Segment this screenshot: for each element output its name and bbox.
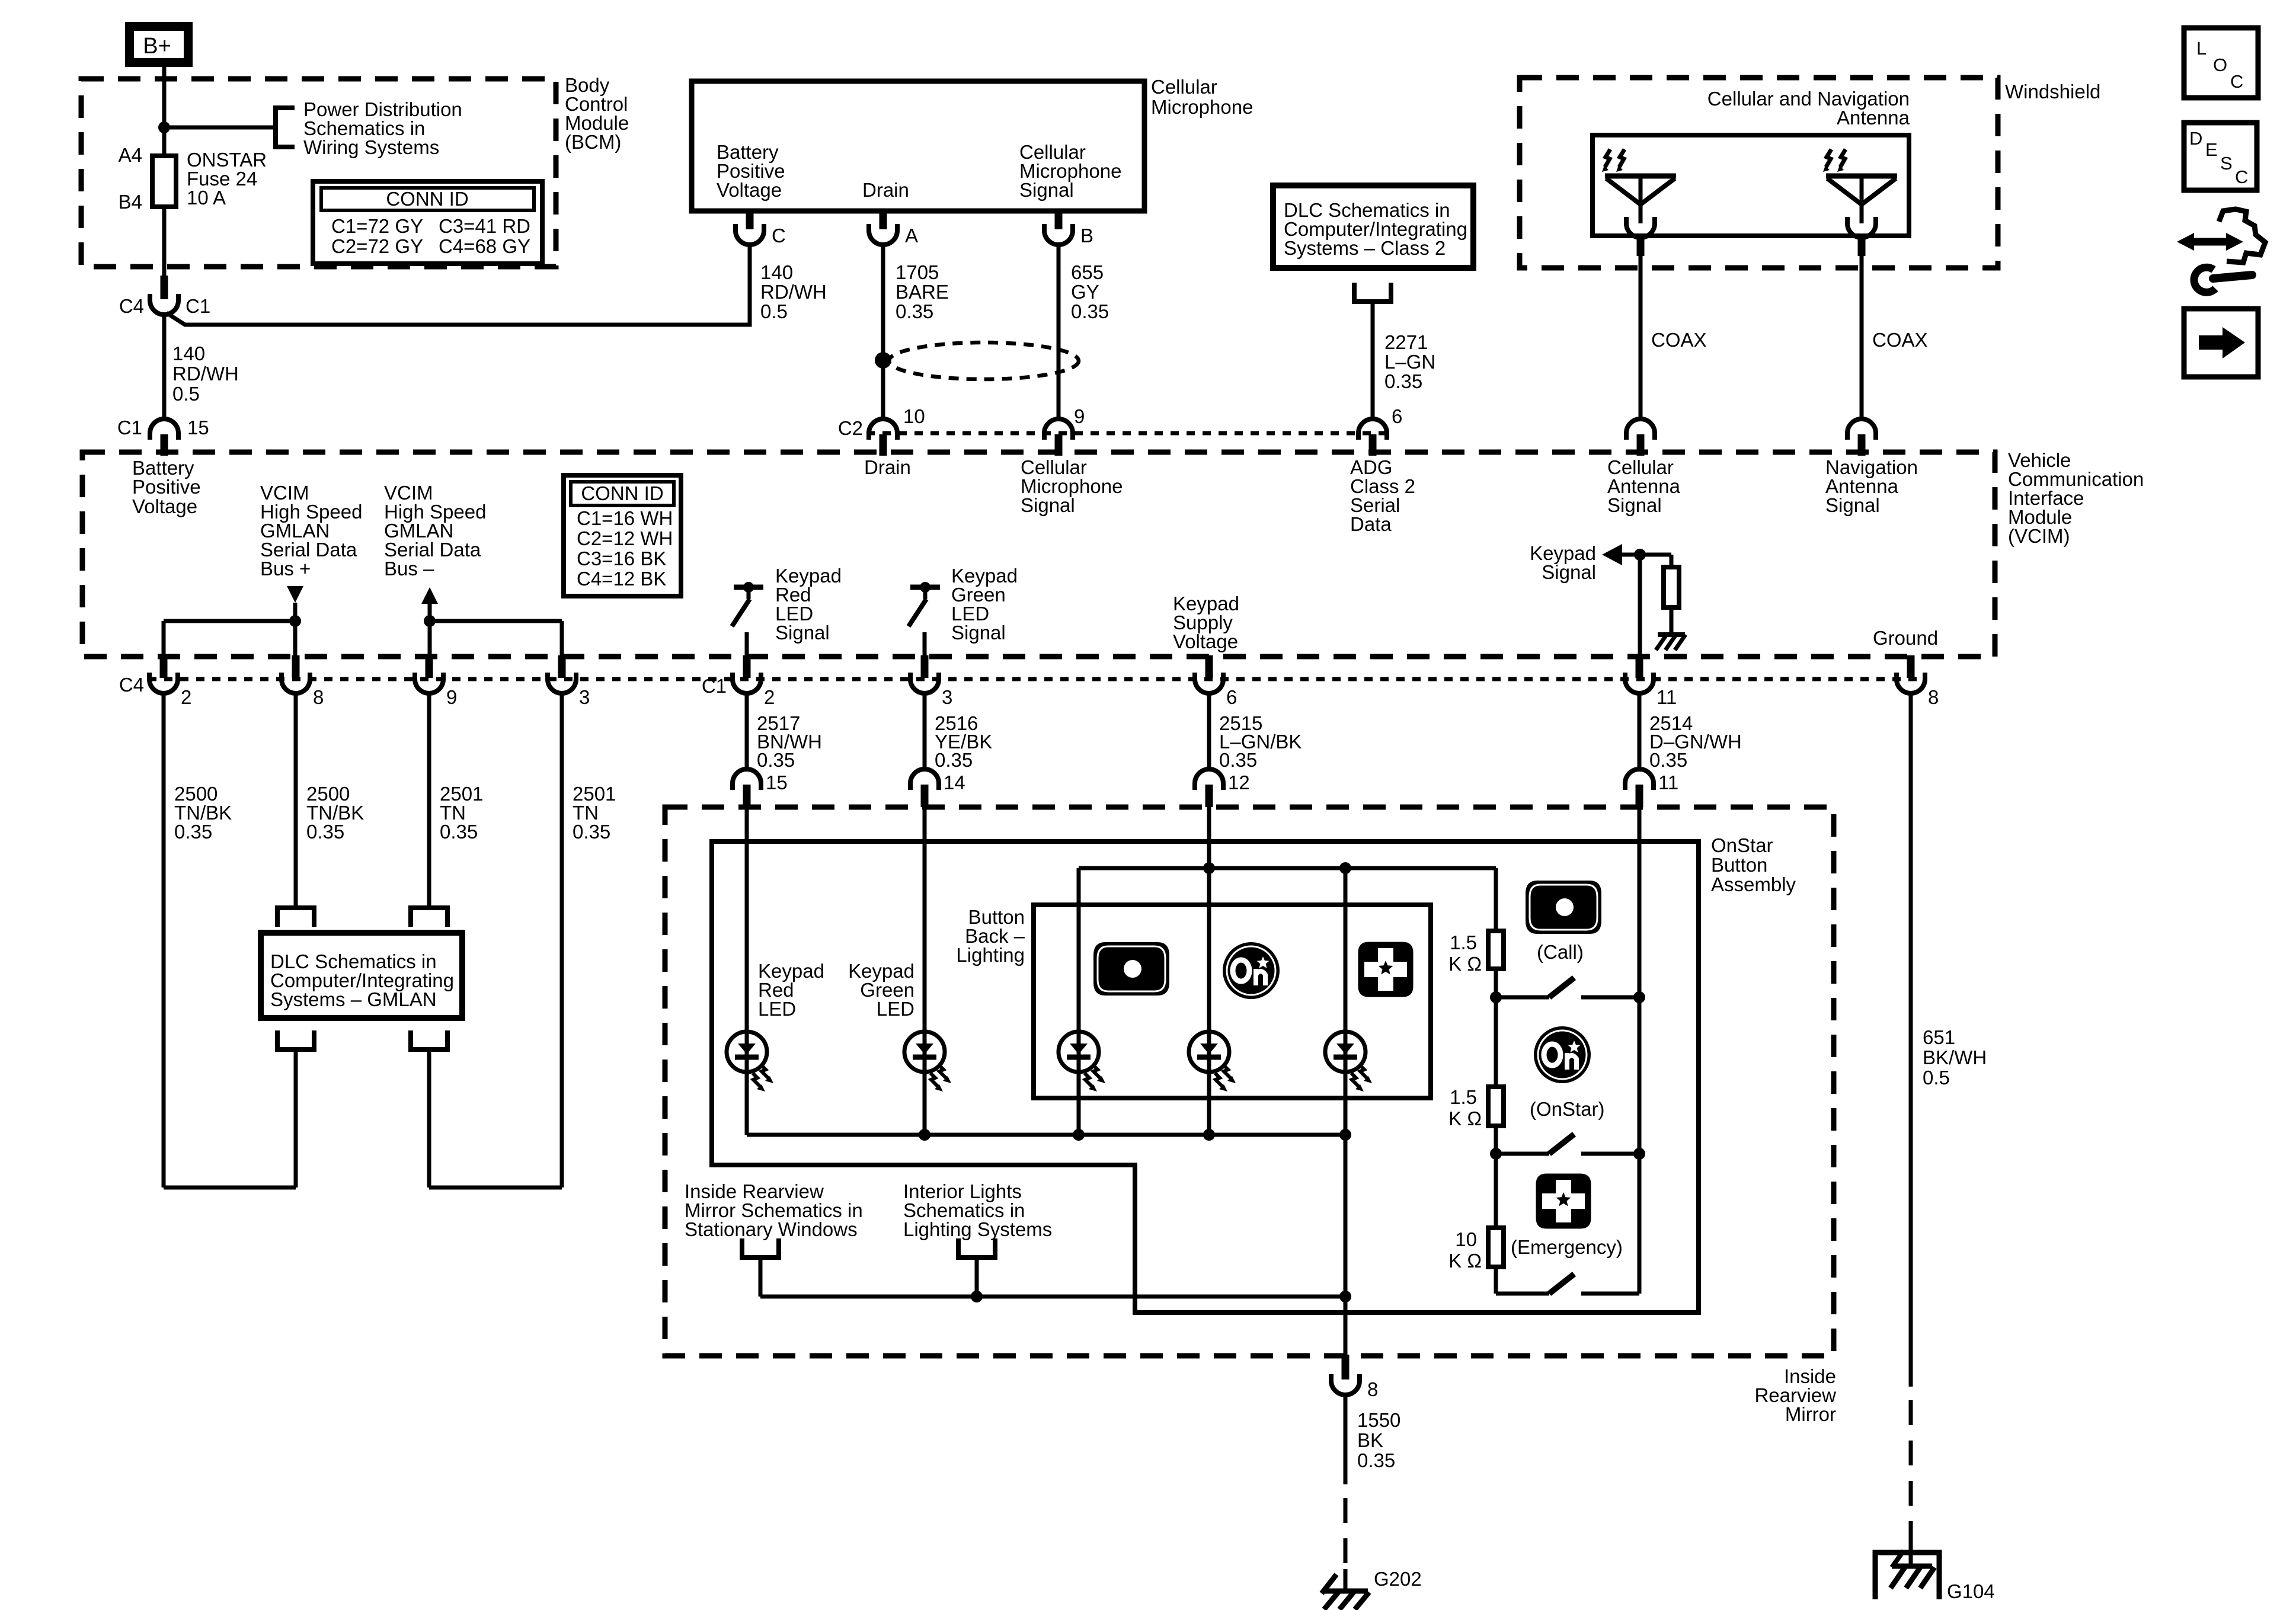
ground G104 [1891,1551,1934,1588]
svg-text:3: 3 [942,686,952,708]
label wire 1550 BK 0.35 [1357,1409,1400,1471]
wire keypad green LED signal to pin 3 [923,632,927,657]
label Drain (microphone) [862,179,909,201]
svg-text:Signal: Signal [1542,561,1596,583]
svg-text:9: 9 [1074,405,1085,427]
connector OnStar button assembly pin 12 [1195,769,1223,807]
connector pin B [1044,209,1073,245]
node switch1 left [1490,991,1502,1003]
label wire 1705 BARE 0.35 [896,261,949,322]
svg-text:RD/WH: RD/WH [760,281,827,303]
svg-text:COAX: COAX [1651,329,1707,351]
wire keypad signal horizontal [1621,553,1671,557]
svg-text:C1=16 WH: C1=16 WH [577,507,673,529]
node shield drain junction [875,352,891,369]
box OnStar Button Assembly (L-shaped) [712,841,1699,1313]
wire back-lighting feed [1079,866,1496,870]
svg-text:C4: C4 [119,674,144,696]
label pin 12 (assembly) [1228,772,1250,793]
label G202 [1374,1568,1422,1590]
svg-text:2: 2 [764,686,775,708]
svg-text:3: 3 [579,686,590,708]
svg-text:Stationary Windows: Stationary Windows [685,1218,858,1240]
power symbol B+ (battery positive) [130,27,188,63]
node bus bl2 [1203,1129,1215,1141]
connector OnStar button assembly pin 14 [910,769,939,807]
wire pin 3 drop inside VCIM [560,621,564,657]
label wire 2516 YE/BK 0.35 [935,712,992,771]
resistor keypad signal pull-down [1664,567,1679,607]
LED keypad red [727,1032,773,1092]
label wire 2271 L-GN 0.35 [1384,331,1435,392]
svg-text:(VCIM): (VCIM) [2008,525,2070,547]
svg-text:1.5: 1.5 [1450,932,1477,953]
svg-text:B: B [1080,225,1093,247]
connector navigation antenna input [1847,419,1876,456]
connector C4 pin 8 [282,655,310,693]
label pin 11 (assembly) [1658,772,1678,793]
label Cellular Antenna Signal [1607,456,1681,516]
box Button Back - Lighting [1034,905,1431,1098]
shield ellipse (dashed) [889,343,1079,379]
wire mirror schematics [759,1257,763,1297]
label wire 2501 TN 0.35 (pin 3) [573,783,616,843]
svg-text:Bus +: Bus + [260,558,311,580]
wire 1550 BK dashed segment [1344,1498,1348,1566]
wire 651 BK/WH [1909,693,1913,1387]
wire 2514 D–GN/WH [1638,693,1642,769]
label Keypad Red LED [758,960,824,1020]
label Ground (VCIM) [1873,627,1938,649]
svg-text:A: A [905,225,918,247]
pin stub below antenna box (navigation) [1858,236,1866,256]
connector assembly pin 8 [1331,1355,1360,1395]
wire bus + horizontal to pin 2 [164,619,295,623]
label wire 2501 TN 0.35 (pin 9) [440,783,483,843]
svg-text:Lighting: Lighting [956,944,1025,966]
svg-text:0.35: 0.35 [757,749,795,771]
svg-text:10: 10 [1455,1228,1477,1250]
svg-text:BK/WH: BK/WH [1923,1046,1987,1068]
label Power Distribution Schematics in Wiring Systems [303,98,462,158]
svg-text:BARE: BARE [896,281,949,303]
node junction on B+ feed [158,121,170,133]
wire fuse to connector C4 [162,207,167,277]
svg-text:2271: 2271 [1384,331,1428,353]
label pin 3 (C1 pin 3) [942,686,952,708]
svg-text:B4: B4 [119,191,142,213]
node bus + junction [289,615,301,627]
svg-text:Signal: Signal [775,622,830,644]
label C4 [119,295,144,317]
svg-text:C1: C1 [702,675,727,697]
wire back-light LED 3 / ground drop [1344,868,1348,1356]
label Windshield [2005,81,2100,103]
label pin 9 [1074,405,1085,427]
node interior lights junction [971,1291,983,1302]
svg-text:Systems – Class 2: Systems – Class 2 [1284,237,1446,259]
label pin 14 (assembly) [944,772,965,793]
wire 2517 BN/WH [745,693,749,769]
label pin 6 (C1 pin 6) [1226,686,1237,708]
svg-text:15: 15 [766,772,788,793]
wire chain R1-R2 [1494,997,1498,1087]
svg-text:651: 651 [1923,1026,1955,1048]
svg-text:G202: G202 [1374,1568,1422,1590]
label wire 651 BK/WH 0.5 [1923,1026,1987,1089]
dashed box Vehicle Communication Interface Module (VCIM) [82,452,1995,657]
svg-text:140: 140 [760,261,793,283]
wire pin 2 drop inside VCIM [162,621,166,657]
svg-text:(Call): (Call) [1537,941,1584,963]
svg-text:10: 10 [903,405,925,427]
svg-text:LED: LED [758,998,796,1020]
svg-text:Mirror: Mirror [1785,1403,1836,1425]
label pin C [772,225,786,247]
wire 2500 TN/BK pin 8 [294,693,298,908]
svg-text:B+: B+ [143,34,171,59]
node feed junction supply [1203,862,1215,874]
svg-text:(Emergency): (Emergency) [1511,1236,1623,1258]
wire drain 1705 BARE [881,244,885,419]
svg-text:Signal: Signal [1019,179,1074,201]
label wire 655 GY 0.35 [1071,261,1109,322]
svg-text:Drain: Drain [862,179,909,201]
svg-text:11: 11 [1658,772,1678,793]
svg-text:L–GN: L–GN [1384,351,1435,373]
label Navigation Antenna Signal [1825,456,1918,516]
label Keypad Signal [1530,542,1596,583]
svg-text:0.35: 0.35 [935,749,973,771]
dashed box Windshield [1520,78,1998,268]
connector C1 pin 6 [1195,655,1223,693]
wire 2516 YE/BK [923,693,927,769]
label pin A [905,225,918,247]
label C2 [838,417,863,439]
legend box LOC [2184,28,2258,98]
svg-text:0.5: 0.5 [760,300,788,322]
svg-text:O: O [2213,55,2227,75]
svg-text:14: 14 [944,772,965,793]
svg-text:0.35: 0.35 [1649,749,1687,771]
GMLAN bus - arrow (up) [421,587,438,604]
svg-text:C2=72 GY: C2=72 GY [331,235,423,257]
connector C1 pin 15 (VCIM battery feed) [150,419,178,456]
label Cellular Microphone [1151,76,1253,118]
svg-text:COAX: COAX [1872,329,1928,351]
svg-text:140: 140 [172,343,205,364]
svg-text:0.35: 0.35 [1071,300,1109,322]
wire COAX navigation [1860,256,1864,419]
svg-text:G104: G104 [1947,1580,1995,1602]
wire resistor to ground [1670,607,1674,635]
ground (VCIM internal) [1656,635,1686,650]
legend box arrow (continue) [2184,309,2258,377]
svg-text:0.35: 0.35 [1219,749,1257,771]
svg-text:Voltage: Voltage [717,179,782,201]
wire COAX cellular [1639,256,1643,419]
svg-text:0.35: 0.35 [573,821,610,843]
reference bracket below DLC GMLAN box (bus +) [277,1030,314,1049]
wire 651 dashed segment [1909,1400,1913,1536]
label ONSTAR Fuse 24 10 A [187,149,267,209]
svg-text:BK: BK [1357,1429,1383,1451]
label 1.5 K ohm (OnStar) [1448,1086,1482,1129]
wire 2501 TN pin 3 [560,693,564,1188]
svg-text:10 A: 10 A [187,187,226,209]
svg-text:Voltage: Voltage [1173,630,1238,652]
resistor 1.5 K (Call) [1488,931,1504,969]
label Interior Lights Schematics in Lighting Systems [903,1180,1052,1240]
label wire 2514 D–GN/WH 0.35 [1649,712,1742,771]
reference bracket into DLC GMLAN box (bus -) [411,908,447,927]
connector C1 pin 3 [910,655,939,693]
dotted connector line (VCIM bottom row) [148,677,1924,681]
svg-text:C1: C1 [186,295,210,317]
node bus bl3 [1339,1129,1351,1141]
switch symbol keypad red LED driver [732,582,763,626]
label pin 9 (C4 pin 9) [446,686,457,708]
resistor 10 K (Emergency) [1488,1228,1504,1267]
label (Emergency) [1511,1236,1623,1258]
svg-text:Voltage: Voltage [132,495,197,517]
switch Call [1496,978,1639,997]
label Battery Positive Voltage (VCIM) [132,457,201,517]
wire B+ to fuse [162,67,167,156]
svg-text:1550: 1550 [1357,1409,1400,1431]
wire keypad signal into assembly [1638,807,1642,1294]
label Cellular Microphone Signal (VCIM) [1021,456,1123,516]
svg-text:C4=68 GY: C4=68 GY [439,235,530,257]
dotted connector line (VCIM top row) [866,431,1394,436]
node bus green [919,1129,930,1141]
svg-text:C3=16 BK: C3=16 BK [577,548,666,569]
reference bracket below DLC Class 2 box [1354,283,1391,302]
node keypad signal junction [1634,549,1646,561]
wire keypad green LED into assembly [923,807,927,1135]
svg-text:C: C [2235,167,2248,187]
label C1 (VCIM bottom) [702,675,727,697]
label Button Back - Lighting [956,906,1025,966]
switch symbol keypad green LED driver [909,582,940,626]
wire bottom loop bus + [164,1186,296,1190]
node switch2 left [1490,1148,1502,1160]
connector C2 pin 10 [869,419,897,456]
wire 655 GY (cellular microphone signal) [1057,244,1061,419]
label pin 2 (C4 pin 2) [181,686,191,708]
switch OnStar [1496,1134,1639,1154]
wire R1 to switch1 [1494,969,1498,997]
box Cellular Microphone [692,81,1144,211]
button icon Call (switch) [1526,881,1601,934]
label C4 (VCIM bottom) [119,674,144,696]
label (Call) [1537,941,1584,963]
reference bracket to Power Distribution Schematics [276,108,295,147]
svg-text:6: 6 [1392,405,1402,427]
LED back-light 2 [1189,1032,1236,1092]
table CONN ID (VCIM) [564,475,681,596]
svg-text:1.5: 1.5 [1450,1086,1477,1108]
wire LED cathode bus [747,1133,1345,1137]
label pin 8 (C1 pin 8) [1928,686,1939,708]
wire R3 to switch3 [1494,1267,1498,1294]
wire below GMLAN box (bus -) [427,1049,431,1188]
wire to keypad pull resistor [1670,555,1674,567]
label COAX (navigation) [1872,329,1928,351]
svg-text:Cellular: Cellular [1151,76,1217,98]
label VCIM High Speed GMLAN Serial Data Bus + [260,482,362,580]
label COAX (cellular) [1651,329,1707,351]
label Cellular Microphone Signal (microphone) [1019,141,1121,201]
svg-text:1705: 1705 [896,261,939,283]
LED back-light 1 [1059,1032,1105,1092]
svg-text:K Ω: K Ω [1448,1108,1482,1129]
svg-text:Windshield: Windshield [2005,81,2100,103]
legend box DESC [2184,123,2257,190]
label wire 2515 L–GN/BK 0.35 [1219,712,1302,771]
connector C2 pin 9 [1044,419,1073,456]
svg-text:Positive: Positive [132,476,201,498]
ground bracket G104 [1875,1553,1939,1599]
reference bracket mirror schematics [742,1238,779,1257]
fuse ONSTAR Fuse 24 10 A [152,156,176,207]
label G104 [1947,1580,1995,1602]
label pin 10 [903,405,925,427]
svg-text:C: C [772,225,786,247]
wire keypad red LED signal to pin 2 [745,632,749,657]
button icon OnStar (switch) [1534,1026,1591,1083]
connector C4 pin 2 [149,655,178,693]
ground G202 [1322,1574,1369,1609]
connector C4 pin 3 [548,655,576,693]
wire bus - horizontal to pin 3 [430,619,562,623]
label pin 6 [1392,405,1402,427]
svg-text:K Ω: K Ω [1448,1250,1482,1272]
svg-text:6: 6 [1226,686,1237,708]
connector cellular antenna input [1626,419,1655,456]
svg-text:0.35: 0.35 [174,821,212,843]
button icon Call (back lighting) [1093,942,1169,996]
LED back-light 3 [1325,1032,1372,1092]
node switch2 right [1633,1148,1645,1160]
label pin 3 (C4 pin 3) [579,686,590,708]
connector C4/C1 (BCM to harness) [150,276,178,315]
label Keypad Supply Voltage [1173,593,1239,652]
label (OnStar) [1530,1098,1605,1120]
table CONN ID (BCM) [313,181,542,264]
svg-text:Ground: Ground [1873,627,1938,649]
svg-text:Assembly: Assembly [1711,873,1796,895]
antenna symbol navigation [1823,149,1897,238]
label C1 [186,295,210,317]
svg-text:E: E [2205,139,2218,160]
connector pin C [736,209,764,245]
connector C1 pin 2 [733,655,761,693]
wire interior lights schematics [975,1257,979,1297]
wire keypad signal to pin 11 [1638,555,1642,657]
svg-text:0.35: 0.35 [440,821,478,843]
svg-text:D: D [2189,128,2202,149]
wire chain R2-R3 [1494,1154,1498,1228]
svg-text:655: 655 [1071,261,1104,283]
label pin 15 [187,417,209,438]
wire bus - vertical [428,604,432,657]
wire below GMLAN box (bus +) [294,1049,298,1188]
svg-text:15: 15 [187,417,209,438]
label Drain (VCIM) [864,456,911,478]
svg-text:C3=41 RD: C3=41 RD [439,215,530,237]
connector pin 6 (ADG) [1358,419,1387,456]
svg-text:11: 11 [1657,686,1677,708]
label Inside Rearview Mirror [1754,1365,1836,1425]
wire 2515 L–GN/BK [1207,693,1211,769]
wire 2501 TN pin 9 [427,693,431,908]
legend icon wrench and arrow [2177,209,2265,292]
wire 651 into ground [1909,1536,1913,1554]
svg-text:Microphone: Microphone [1151,96,1253,118]
box Cellular and Navigation Antenna [1593,135,1909,236]
connector pin A [869,209,897,245]
reference bracket interior lights schematics [958,1238,995,1257]
reference bracket below DLC GMLAN box (bus -) [411,1030,447,1049]
wire 2500 TN/BK pin 2 [162,693,166,1188]
svg-text:CONN ID: CONN ID [386,188,468,210]
label pin 11 (C1 pin 11) [1657,686,1677,708]
label pin 2 (C1 pin 2) [764,686,775,708]
box DLC Schematics in Computer/Integrating Systems - Class 2 [1273,185,1473,268]
label VCIM High Speed GMLAN Serial Data Bus - [384,482,486,580]
button icon OnStar (back lighting) [1223,942,1280,999]
node bus bl1 [1073,1129,1085,1141]
svg-text:8: 8 [1367,1378,1378,1400]
wire resistor chain top [1494,868,1498,931]
connector C1 pin 8 [1897,655,1925,693]
svg-text:9: 9 [446,686,457,708]
svg-text:Button: Button [1711,854,1767,876]
label Keypad Green LED Signal [951,565,1018,644]
pin A4 label [119,144,142,166]
svg-text:A4: A4 [119,144,142,166]
wire 1550 BK [1344,1395,1348,1484]
box DLC Schematics in Computer/Integrating Systems - GMLAN [261,933,462,1018]
button icon Emergency (switch) [1536,1174,1591,1229]
wire keypad red LED into assembly [745,807,749,1135]
svg-text:Data: Data [1350,513,1392,535]
wire C4 connector down to VCIM C1-15 [162,315,167,419]
svg-text:Drain: Drain [864,456,911,478]
svg-text:L: L [2196,38,2207,59]
label wire 140 RD/WH 0.5 (left) [172,343,239,405]
svg-text:C2: C2 [838,417,863,439]
label wire 140 RD/WH 0.5 (microphone) [760,261,827,322]
wire R2 to switch2 [1494,1126,1498,1154]
svg-text:0.35: 0.35 [1384,370,1422,392]
label wire 2500 TN/BK 0.35 (pin 8) [306,783,364,843]
label pin 15 (assembly) [766,772,788,793]
antenna symbol cellular [1602,149,1676,238]
svg-text:Signal: Signal [1825,494,1880,516]
svg-text:(OnStar): (OnStar) [1530,1098,1605,1120]
dashed box Body Control Module (BCM) [81,79,556,267]
node feed junction right LED [1339,862,1351,874]
svg-text:(BCM): (BCM) [565,131,621,153]
svg-text:0.35: 0.35 [896,300,933,322]
svg-text:C1: C1 [117,417,142,438]
svg-text:OnStar: OnStar [1711,834,1773,856]
svg-text:Signal: Signal [1021,494,1075,516]
label 1.5 K ohm (Call) [1448,932,1482,975]
wire back-light LED 1 drop [1077,868,1081,1135]
